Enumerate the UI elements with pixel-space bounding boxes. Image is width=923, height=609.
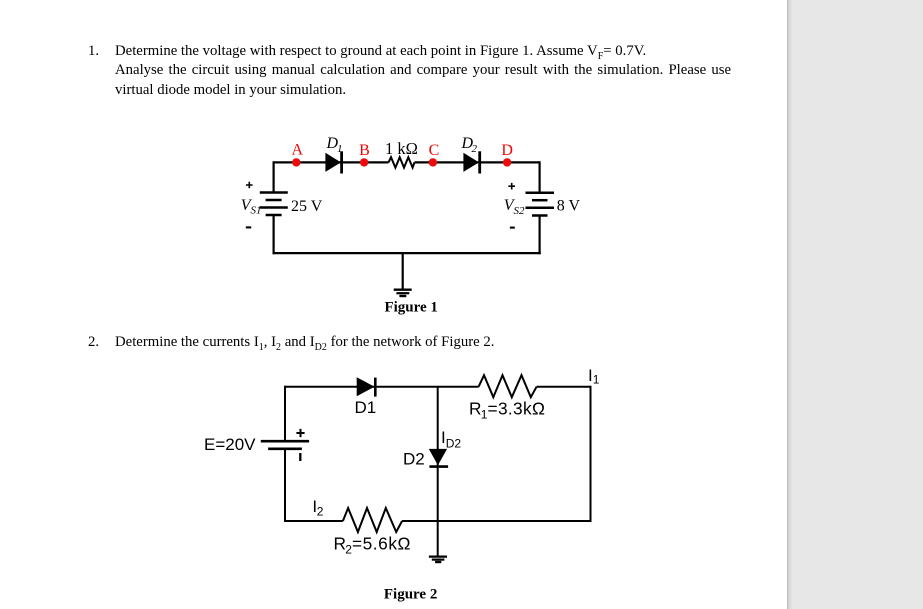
wire: Fig2 left vertical lower xyxy=(284,449,286,522)
label D2 (Fig2) xyxy=(403,449,425,468)
svg-text:2: 2 xyxy=(317,504,324,518)
resistor 1 kOhm xyxy=(389,157,415,167)
svg-text:8 V: 8 V xyxy=(557,198,581,215)
label R1 value xyxy=(469,399,545,422)
diode D2 (Fig2, pointing down) xyxy=(429,449,448,467)
ground Fig1 xyxy=(394,253,412,296)
node A xyxy=(292,158,300,166)
plus sign VS2 xyxy=(508,183,515,190)
svg-text:B: B xyxy=(359,142,370,159)
svg-text:S1: S1 xyxy=(251,205,262,217)
caption Figure 1 xyxy=(384,300,437,316)
svg-text:S2: S2 xyxy=(514,205,526,217)
svg-text:A: A xyxy=(292,142,304,159)
node D xyxy=(503,158,511,166)
svg-text:R: R xyxy=(334,534,346,554)
node C xyxy=(429,158,437,166)
plus sign VS1 xyxy=(246,182,253,189)
svg-text:Figure 1: Figure 1 xyxy=(384,300,437,316)
svg-text:E=20V: E=20V xyxy=(204,435,256,454)
label A xyxy=(292,142,304,159)
wire: Fig1 top right segment xyxy=(415,161,540,163)
svg-text:C: C xyxy=(429,142,440,159)
svg-text:=3.3kΩ: =3.3kΩ xyxy=(488,399,546,419)
wire: Fig1 left vertical upper xyxy=(273,161,275,192)
wire: Fig2 right vertical xyxy=(590,386,592,522)
label E=20V xyxy=(204,435,256,454)
label VS1 xyxy=(241,197,262,217)
svg-text:D: D xyxy=(501,142,513,159)
svg-text:1: 1 xyxy=(593,373,600,387)
battery VS1 xyxy=(260,193,288,216)
gray viewer background panel xyxy=(787,0,923,609)
svg-text:D1: D1 xyxy=(355,398,377,417)
wire: Fig2 bottom left segment xyxy=(285,520,343,522)
resistor R1 xyxy=(479,375,537,397)
wire: Fig1 right vertical upper xyxy=(538,161,540,193)
battery E xyxy=(261,441,309,449)
battery VS2 xyxy=(526,193,555,216)
wire: Fig2 left vertical upper xyxy=(284,386,286,442)
wire: Fig1 top left segment xyxy=(274,161,389,163)
wire: Fig2 bottom right segment xyxy=(402,520,591,522)
label D xyxy=(501,142,513,159)
svg-text:D2: D2 xyxy=(403,449,425,468)
svg-text:Figure 2: Figure 2 xyxy=(384,586,437,602)
diode D1 (Fig2) xyxy=(357,377,376,396)
value label 1 kOhm xyxy=(385,139,418,158)
svg-text:2: 2 xyxy=(472,143,478,155)
label I1 xyxy=(588,366,600,387)
svg-text:1: 1 xyxy=(337,143,343,155)
minus sign VS1 xyxy=(246,226,251,228)
wire: Fig2 top left segment xyxy=(285,386,479,388)
node B xyxy=(360,158,368,166)
caption Figure 2 xyxy=(384,586,437,602)
label D2 xyxy=(461,135,478,155)
label C xyxy=(429,142,440,159)
svg-text:D2: D2 xyxy=(446,436,462,450)
svg-text:1 kΩ: 1 kΩ xyxy=(385,139,418,158)
wire: Fig1 left vertical lower xyxy=(273,215,275,254)
label ID2 xyxy=(441,428,461,450)
svg-text:25 V: 25 V xyxy=(291,198,323,215)
label I2 xyxy=(312,497,323,518)
svg-text:=5.6kΩ: =5.6kΩ xyxy=(352,534,411,554)
wire: Fig1 right vertical lower xyxy=(538,216,540,255)
wire: Fig2 middle vertical xyxy=(437,387,439,557)
minus sign VS2 xyxy=(510,227,515,229)
label 25 V xyxy=(291,198,323,215)
label R2 value xyxy=(334,534,411,557)
label 8 V xyxy=(557,198,581,215)
label D1 xyxy=(326,135,343,155)
minus tick E xyxy=(299,453,301,461)
diode D1 xyxy=(325,151,341,173)
ground Fig2 xyxy=(429,557,447,562)
problem 2 text xyxy=(88,333,733,353)
wire: Fig1 bottom xyxy=(273,252,541,254)
label VS2 xyxy=(504,197,525,217)
svg-text:R: R xyxy=(469,399,481,419)
problem 1 text xyxy=(88,42,733,62)
label B xyxy=(359,142,370,159)
label D1 (Fig2) xyxy=(355,398,377,417)
diode D2 xyxy=(463,151,479,173)
plus sign E xyxy=(296,429,304,437)
resistor R2 xyxy=(343,508,402,532)
wire: Fig2 top right segment xyxy=(537,386,591,388)
